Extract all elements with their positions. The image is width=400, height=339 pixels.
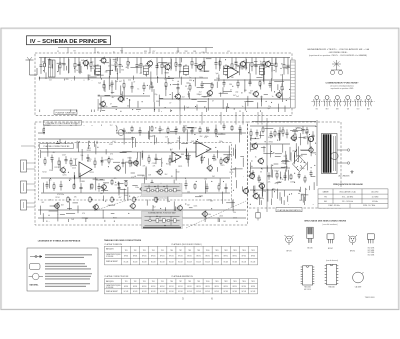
resistor R34 — [43, 126, 45, 134]
svg-text:1n: 1n — [260, 61, 262, 63]
semiconductor table 2 grid — [105, 279, 258, 294]
svg-text:100k: 100k — [216, 78, 220, 80]
svg-text:1k8: 1k8 — [100, 193, 103, 195]
svg-text:2k2: 2k2 — [187, 205, 190, 207]
wire signal interconnect — [155, 159, 161, 161]
svg-text:BC148: BC148 — [133, 291, 138, 293]
IF transformer T5 — [259, 64, 264, 76]
junction node — [280, 95, 281, 96]
junction node — [129, 196, 130, 197]
transistor Q12 — [252, 90, 258, 97]
svg-text:68p: 68p — [77, 65, 80, 67]
svg-text:BC 559B: BC 559B — [368, 254, 374, 256]
junction node — [120, 111, 121, 112]
wire signal interconnect — [123, 134, 125, 144]
capacitor C60 — [225, 183, 228, 192]
wire signal interconnect — [193, 143, 203, 145]
svg-text:4k7: 4k7 — [119, 197, 122, 199]
svg-text:4k7: 4k7 — [112, 97, 115, 99]
resistor R46 — [231, 125, 233, 131]
capacitor C33 — [107, 126, 110, 134]
resistor R52 — [129, 157, 131, 167]
junction node — [271, 102, 272, 103]
svg-text:BF194: BF194 — [124, 286, 128, 288]
svg-text:R221: R221 — [87, 148, 91, 150]
legend text line — [45, 283, 90, 284]
transistor Q4 — [164, 63, 171, 71]
junction node — [143, 93, 144, 94]
junction node — [155, 126, 156, 129]
wire tuner interconnect — [111, 85, 113, 94]
capacitor C70 — [298, 172, 301, 179]
svg-text:(vue côté soudures): (vue côté soudures) — [323, 223, 338, 226]
resistor R67 — [274, 129, 276, 137]
junction node — [225, 59, 226, 60]
wire signal interconnect — [206, 127, 208, 132]
wire signal interconnect — [230, 168, 235, 170]
svg-text:C215: C215 — [72, 168, 76, 170]
signal block dashed outline — [35, 122, 248, 225]
svg-text:BC148: BC148 — [196, 261, 201, 263]
capacitor C7 — [156, 58, 159, 76]
wire signal interconnect — [145, 218, 147, 222]
wire signal interconnect — [223, 154, 232, 156]
junction node — [68, 172, 69, 173]
wire tuner interconnect — [138, 64, 142, 66]
svg-text:TR2: TR2 — [185, 51, 188, 53]
wire tuner interconnect — [206, 108, 208, 112]
wire signal interconnect — [47, 144, 49, 150]
svg-text:TR5: TR5 — [161, 250, 164, 252]
wire tuner interconnect — [188, 91, 190, 97]
resistor R42 — [167, 127, 169, 135]
junction node — [266, 101, 267, 102]
transistor Q32 — [252, 192, 259, 200]
wire tuner interconnect — [39, 77, 41, 82]
resistor R20 — [91, 80, 93, 88]
junction node — [46, 221, 47, 222]
wire tuner interconnect — [158, 109, 160, 112]
wire signal interconnect — [51, 160, 53, 170]
wire power interconnect — [298, 146, 300, 157]
wire tuner interconnect — [86, 62, 88, 69]
wire signal interconnect — [217, 133, 225, 135]
wire tuner interconnect — [149, 85, 151, 89]
wire tuner interconnect — [225, 67, 235, 69]
svg-text:BF194: BF194 — [196, 255, 200, 257]
junction node — [105, 201, 106, 202]
svg-text:1k: 1k — [261, 168, 263, 170]
junction node — [165, 77, 166, 78]
resistor R49 — [70, 158, 72, 167]
wire stub — [59, 139, 61, 143]
wire tuner interconnect — [85, 102, 90, 104]
wire signal interconnect — [208, 158, 210, 165]
inset A circuit — [144, 185, 181, 192]
svg-text:BF194: BF194 — [233, 255, 237, 257]
wire signal interconnect — [187, 126, 194, 128]
svg-text:BC148: BC148 — [160, 261, 165, 263]
transistor Q28 — [251, 142, 258, 150]
wire power interconnect — [298, 158, 300, 162]
svg-text:BF194: BF194 — [187, 286, 191, 288]
wire signal interconnect — [48, 127, 52, 129]
resistor R58 — [73, 183, 75, 189]
wire power interconnect — [259, 135, 264, 137]
svg-text:1k: 1k — [187, 94, 189, 96]
svg-text:BF194: BF194 — [187, 255, 191, 257]
svg-text:68p: 68p — [163, 65, 166, 67]
junction node — [255, 138, 256, 139]
capacitor C55 — [98, 183, 101, 192]
wire tuner interconnect — [219, 60, 221, 71]
wire tuner interconnect — [207, 98, 209, 111]
wire tuner interconnect — [117, 57, 119, 61]
wire signal interconnect — [43, 129, 51, 131]
wire tuner interconnect — [105, 94, 111, 96]
wire tuner interconnect — [282, 93, 284, 102]
op-amp U3 output — [196, 141, 211, 157]
mains voltage selector — [331, 152, 338, 159]
junction node — [299, 177, 300, 178]
wire signal interconnect — [235, 180, 237, 188]
svg-text:1k8: 1k8 — [71, 219, 74, 221]
wire signal interconnect — [239, 130, 241, 143]
svg-text:PLATINE FI / DECODEUR STEREO: PLATINE FI / DECODEUR STEREO — [46, 122, 80, 125]
wire signal interconnect — [89, 184, 91, 190]
wire power interconnect — [286, 158, 288, 171]
wire signal interconnect — [127, 187, 129, 200]
wire signal interconnect — [155, 188, 157, 194]
svg-text:BC148: BC148 — [169, 291, 174, 293]
wire tuner interconnect — [120, 86, 122, 96]
svg-text:C215: C215 — [233, 217, 237, 219]
wire power interconnect — [250, 137, 252, 142]
svg-text:C1: C1 — [57, 51, 59, 53]
wire signal interconnect — [242, 158, 244, 167]
junction node — [186, 158, 187, 159]
junction node — [71, 125, 72, 126]
svg-text:1k: 1k — [187, 88, 189, 90]
svg-text:10k: 10k — [152, 199, 155, 201]
wire tuner interconnect — [281, 74, 283, 86]
wire signal interconnect — [187, 153, 189, 167]
resistor R41 — [151, 126, 153, 132]
svg-text:R221: R221 — [55, 167, 59, 169]
svg-text:B40: B40 — [299, 200, 302, 202]
wire signal interconnect — [74, 159, 76, 165]
wire signal interconnect — [204, 180, 206, 193]
svg-text:C215: C215 — [62, 174, 66, 176]
svg-text:C207: C207 — [109, 144, 113, 146]
svg-text:330: 330 — [156, 101, 159, 103]
svg-text:BF194: BF194 — [178, 255, 182, 257]
junction node — [40, 106, 41, 107]
legend text line — [45, 273, 92, 274]
capacitor C58 — [185, 180, 188, 190]
junction node — [170, 94, 171, 95]
wire power interconnect — [261, 147, 266, 149]
wire signal interconnect — [93, 178, 98, 180]
transistor package TO-18 BF173 — [285, 235, 294, 245]
svg-text:R214: R214 — [42, 172, 46, 174]
svg-text:2k2: 2k2 — [41, 202, 44, 204]
junction node — [304, 162, 305, 163]
junction node — [315, 126, 316, 127]
wire tuner interconnect — [218, 74, 220, 81]
svg-text:R214: R214 — [87, 161, 91, 163]
svg-text:1k8: 1k8 — [61, 205, 64, 207]
wire signal interconnect — [79, 173, 81, 183]
resistor R74 — [304, 175, 306, 183]
wire power interconnect — [294, 153, 296, 158]
wire signal interconnect — [173, 180, 175, 187]
svg-text:2n2: 2n2 — [260, 97, 263, 99]
junction node — [280, 177, 281, 178]
connector DIN socket — [21, 160, 36, 172]
junction node — [215, 147, 216, 148]
wire signal interconnect — [124, 179, 128, 181]
svg-text:«MOYENNE ONDE»: «MOYENNE ONDE» — [329, 52, 349, 54]
switch contact S1b — [324, 96, 331, 107]
wire antenna feed — [30, 74, 38, 76]
svg-text:BF194: BF194 — [224, 286, 228, 288]
wire tuner interconnect — [100, 97, 102, 110]
wire signal interconnect — [167, 138, 169, 144]
wire tuner interconnect — [51, 60, 53, 68]
wire signal interconnect — [123, 189, 125, 200]
wire signal interconnect — [102, 210, 104, 219]
svg-text:BC148: BC148 — [142, 261, 147, 263]
wire tuner interconnect — [93, 70, 95, 76]
power transformer TR901 — [322, 134, 338, 174]
wire signal interconnect — [42, 213, 44, 222]
wire signal interconnect — [96, 136, 98, 144]
svg-text:68p: 68p — [164, 79, 167, 81]
semiconductor table 1 grid — [105, 246, 258, 265]
wire tuner interconnect — [48, 100, 50, 106]
wire signal interconnect — [137, 174, 144, 176]
svg-text:TR1: TR1 — [125, 281, 128, 283]
wire tuner interconnect — [179, 99, 181, 112]
svg-text:4k7: 4k7 — [161, 130, 164, 132]
wire signal interconnect — [173, 201, 175, 214]
svg-text:47k: 47k — [111, 159, 114, 161]
wire signal interconnect — [103, 182, 109, 184]
svg-text:100k: 100k — [79, 72, 83, 74]
svg-text:R214: R214 — [206, 149, 210, 151]
transistor package TO-92 BC547 — [327, 234, 334, 244]
wire signal interconnect — [101, 189, 108, 191]
junction node — [77, 134, 78, 135]
junction node — [265, 141, 266, 142]
legend symbol arrow — [30, 255, 42, 257]
svg-text:470µ: 470µ — [274, 183, 278, 185]
svg-text:100k: 100k — [178, 65, 182, 67]
svg-text:10k: 10k — [111, 65, 114, 67]
wire tuner interconnect — [184, 106, 186, 111]
svg-text:R24: R24 — [193, 51, 196, 53]
wire signal interconnect — [96, 179, 105, 181]
svg-text:2200µ: 2200µ — [301, 194, 306, 196]
junction node — [65, 172, 66, 173]
svg-text:1n: 1n — [172, 80, 174, 82]
capacitor C4 — [94, 58, 97, 75]
svg-text:4k7: 4k7 — [125, 67, 128, 69]
junction node — [115, 182, 116, 183]
svg-text:5p6: 5p6 — [98, 83, 101, 85]
capacitor C45 — [101, 157, 104, 166]
resistor R8 — [161, 58, 163, 75]
svg-text:470µ: 470µ — [272, 189, 276, 191]
resistor R36 — [67, 127, 69, 135]
junction node — [297, 169, 298, 170]
junction node — [162, 218, 163, 219]
svg-text:PLATINE ALIMENTATION: PLATINE ALIMENTATION — [172, 275, 194, 278]
wire signal interconnect — [47, 149, 49, 157]
svg-text:455 kHz: 455 kHz — [372, 201, 378, 203]
wire signal interconnect — [222, 192, 224, 204]
svg-text:47: 47 — [133, 81, 135, 83]
svg-text:47k: 47k — [175, 129, 178, 131]
wire tuner interconnect — [179, 71, 181, 78]
wire tuner interconnect — [57, 62, 64, 64]
capacitor C25 — [41, 98, 44, 105]
IF transformer T3 — [183, 64, 188, 76]
junction node — [291, 193, 292, 194]
junction node — [84, 65, 85, 66]
transistor Q6 — [239, 60, 246, 68]
svg-text:TBA 540: TBA 540 — [328, 285, 335, 288]
wire power interconnect — [293, 151, 295, 161]
wire tuner interconnect — [159, 97, 163, 99]
wire tuner interconnect — [79, 95, 81, 103]
svg-text:BF194: BF194 — [133, 286, 137, 288]
resistor R43 — [183, 126, 185, 133]
junction node — [101, 79, 102, 80]
wire power interconnect — [265, 128, 274, 130]
svg-text:330: 330 — [231, 77, 234, 79]
label box PLATINE FI DECODEUR — [44, 121, 82, 126]
wire tuner interconnect — [76, 85, 83, 87]
junction node — [261, 171, 262, 172]
wire power interconnect — [299, 133, 301, 145]
transistor Q25 — [176, 204, 182, 211]
junction node — [272, 136, 273, 137]
svg-text:220: 220 — [203, 96, 206, 98]
junction node — [121, 94, 122, 95]
wire tuner interconnect — [162, 62, 171, 64]
capacitor C31 — [75, 124, 78, 131]
junction node — [271, 151, 272, 152]
junction node — [274, 91, 275, 92]
junction node — [274, 191, 275, 192]
wire tuner interconnect — [145, 72, 147, 77]
transistor Q33 — [258, 182, 265, 190]
resistor R12 — [219, 58, 221, 69]
wire signal interconnect — [175, 169, 177, 181]
wire tuner mid rail right — [214, 79, 290, 81]
wire signal interconnect — [69, 202, 71, 210]
svg-text:R12: R12 — [120, 51, 123, 53]
wire tuner interconnect — [133, 76, 135, 81]
wire signal interconnect — [186, 129, 188, 141]
svg-text:22k: 22k — [263, 191, 266, 193]
wire power interconnect — [307, 136, 309, 145]
svg-text:TR7: TR7 — [179, 250, 182, 252]
wire power interconnect — [279, 172, 281, 180]
svg-text:BF194: BF194 — [160, 255, 164, 257]
capacitor C32 — [91, 125, 94, 133]
wire tuner interconnect — [181, 58, 183, 63]
svg-text:2k2: 2k2 — [169, 143, 172, 145]
junction node — [128, 213, 129, 214]
wire tuner interconnect — [219, 92, 228, 94]
capacitor C24 — [269, 81, 272, 88]
junction node — [299, 191, 300, 192]
junction node — [258, 179, 259, 180]
wire signal interconnect — [124, 162, 126, 174]
wire tuner interconnect — [237, 65, 247, 67]
capacitor C48 — [155, 154, 158, 164]
wire interblock links — [180, 112, 262, 125]
svg-text:10k: 10k — [188, 156, 191, 158]
wire power interconnect — [285, 155, 287, 159]
wire power mid rail — [250, 167, 290, 169]
resistor R13 — [231, 58, 233, 74]
op-amp U4 — [172, 152, 181, 162]
svg-text:L5: L5 — [113, 52, 115, 54]
svg-text:TR13: TR13 — [233, 250, 237, 252]
svg-text:2k2: 2k2 — [49, 179, 52, 181]
junction node — [176, 64, 177, 65]
junction node — [309, 134, 310, 135]
wire signal interconnect — [217, 167, 219, 172]
resistor R69 — [294, 131, 296, 141]
wire power low rail — [250, 189, 300, 191]
wire tuner interconnect — [108, 76, 110, 90]
wire power interconnect — [290, 129, 298, 131]
resistor R55 — [201, 155, 203, 164]
IC package DIP-14 TBA540 — [325, 264, 339, 285]
resistor R40 — [131, 126, 133, 132]
svg-text:R221: R221 — [178, 166, 182, 168]
junction node — [50, 178, 51, 179]
svg-text:FREQUENCES DE REGLAGE: FREQUENCES DE REGLAGE — [333, 183, 363, 186]
junction node — [215, 159, 216, 160]
svg-text:1k: 1k — [305, 189, 307, 191]
resistor R21 — [103, 81, 105, 90]
wire signal interconnect — [56, 142, 60, 144]
wire signal interconnect — [111, 213, 115, 215]
inset detail box B background — [142, 211, 183, 229]
wire aux rail — [38, 209, 246, 211]
junction node — [122, 130, 123, 131]
wire tuner interconnect — [196, 105, 198, 111]
transistor Q10 — [174, 93, 180, 100]
capacitor C36 — [159, 126, 162, 134]
wire signal interconnect — [117, 181, 119, 185]
wire signal interconnect — [145, 167, 147, 181]
svg-text:1n: 1n — [97, 65, 99, 67]
capacitor C40 — [223, 123, 226, 130]
wire power interconnect — [260, 200, 262, 205]
wire signal interconnect — [100, 179, 104, 181]
svg-text:22p: 22p — [241, 69, 244, 71]
transistor Q14 — [59, 166, 65, 173]
capacitor C19 — [151, 82, 154, 92]
wire signal interconnect — [186, 148, 188, 159]
